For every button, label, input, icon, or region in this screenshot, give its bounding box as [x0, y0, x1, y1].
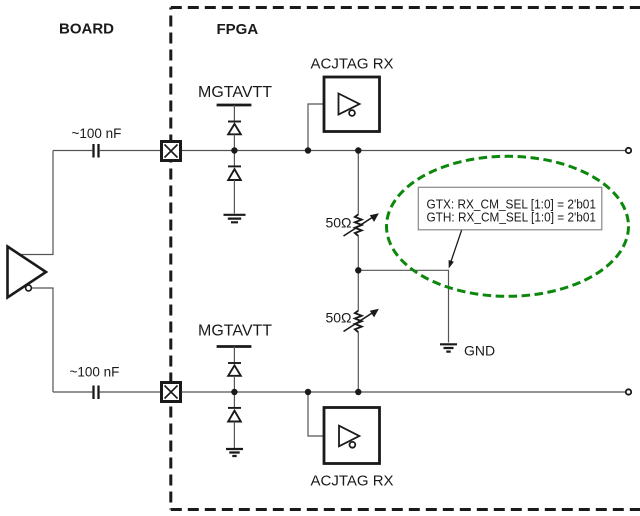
label FPGA: [217, 21, 259, 38]
node: common-mode midpoint between R1 and R2: [355, 267, 361, 273]
wire: D4 to ground (bottom): [233, 422, 235, 449]
terminal: bottom RX pin (open circle): [626, 389, 631, 394]
wire: driver top output and left riser up: [20, 151, 53, 255]
svg-text:ACJTAG RX: ACJTAG RX: [311, 473, 394, 490]
diode D3 (to MGTAVTT, bottom): [228, 363, 241, 376]
svg-text:GND: GND: [464, 343, 495, 359]
terminal: top RX pin (open circle): [626, 148, 631, 153]
wire: D2 to ground (top): [233, 180, 235, 214]
trim arrow R2: [344, 309, 379, 332]
pad P1 (top package pin, crossed square): [162, 142, 181, 161]
FPGA boundary left edge (dashed): [169, 8, 172, 510]
wire: top channel to resistor R1: [357, 151, 359, 215]
diode D1 (to MGTAVTT, top): [228, 122, 241, 135]
node: top channel / R1 tap: [355, 147, 361, 153]
power rail bar MGTAVTT (bottom): [217, 345, 252, 348]
op-amp U2 ACJTAG RX receiver (top): [324, 77, 380, 132]
wire: bottom channel from riser to right terminal: [53, 391, 626, 393]
inversion bubble on driver bottom output: [26, 285, 32, 291]
svg-text:50Ω: 50Ω: [325, 310, 351, 326]
label ACJTAG RX (top): [311, 56, 394, 73]
wire: top channel from riser to right terminal: [53, 150, 626, 152]
svg-text:50Ω: 50Ω: [325, 215, 351, 231]
driver U1 (board output buffer): [8, 247, 47, 298]
wire: bottom channel to ACJTAG RX input (bottom): [308, 392, 324, 436]
power rail bar MGTAVTT (top): [217, 104, 252, 107]
ground symbol (top MGTAVTT clamp): [224, 215, 246, 223]
resistor R2 50 ohm (variable): [355, 311, 362, 333]
leader arrow from callout to mid node: [449, 230, 462, 268]
node: bottom channel / ACJTAG RX tap: [305, 389, 311, 395]
FPGA boundary bottom edge (dashed): [171, 508, 640, 511]
svg-text:FPGA: FPGA: [217, 21, 259, 38]
wire: driver bottom output and left riser down: [31, 288, 53, 392]
svg-text:~100 nF: ~100 nF: [70, 365, 120, 380]
FPGA boundary top edge (dashed): [171, 6, 640, 9]
svg-text:~100 nF: ~100 nF: [72, 126, 122, 141]
node: bottom channel / R2 tap: [355, 389, 361, 395]
svg-text:BOARD: BOARD: [59, 21, 114, 38]
value label 50 ohm (R2): [325, 310, 351, 326]
diode D4 (from ground, bottom): [228, 408, 241, 422]
wire: top channel to ACJTAG RX input (top): [308, 104, 324, 151]
label MGTAVTT (bottom): [198, 323, 272, 340]
ground symbol (bottom MGTAVTT clamp): [226, 449, 243, 456]
svg-text:GTH: RX_CM_SEL [1:0] = 2'b01: GTH: RX_CM_SEL [1:0] = 2'b01: [427, 210, 597, 225]
wire: R1 to mid node: [357, 236, 359, 271]
wire: D3 to bottom channel: [233, 376, 235, 392]
trim arrow R1: [344, 213, 379, 236]
label BOARD: [59, 21, 114, 38]
capacitor C1 ~100 nF (top): [94, 144, 99, 158]
value label ~100 nF (top): [72, 126, 122, 141]
wire: mid node to GND stub: [358, 270, 448, 342]
pad P2 (bottom package pin, crossed square): [162, 383, 181, 402]
node: top channel / ACJTAG RX tap: [305, 147, 311, 153]
wire: bottom channel to diode D4: [233, 392, 235, 408]
ground symbol (common mode GND): [440, 344, 457, 351]
svg-text:MGTAVTT: MGTAVTT: [198, 84, 272, 101]
resistor R1 50 ohm (variable): [355, 214, 362, 236]
value label ~100 nF (bottom): [70, 365, 120, 380]
wire: R2 to bottom channel: [357, 332, 359, 392]
node: top channel / MGTAVTT clamp tap: [231, 147, 237, 153]
wire: mid node to R2: [357, 270, 359, 311]
svg-text:MGTAVTT: MGTAVTT: [198, 323, 272, 340]
op-amp U3 ACJTAG RX receiver (bottom): [324, 408, 380, 464]
svg-text:ACJTAG RX: ACJTAG RX: [311, 56, 394, 73]
wire: rail to diode D3: [233, 347, 235, 364]
highlight ellipse (green dashed): [387, 156, 629, 296]
node: bottom channel / MGTAVTT clamp tap: [231, 389, 237, 395]
wire: rail to diode D1: [233, 105, 235, 122]
capacitor C2 ~100 nF (bottom): [94, 386, 99, 400]
callout box RX_CM_SEL settings: [418, 187, 602, 230]
label GND: [464, 343, 495, 359]
diode D2 (from ground, top): [228, 166, 241, 180]
value label 50 ohm (R1): [325, 215, 351, 231]
wire: top channel to diode D2: [233, 151, 235, 167]
wire: D1 to top channel: [233, 134, 235, 150]
label ACJTAG RX (bottom): [311, 473, 394, 490]
label MGTAVTT (top): [198, 84, 272, 101]
